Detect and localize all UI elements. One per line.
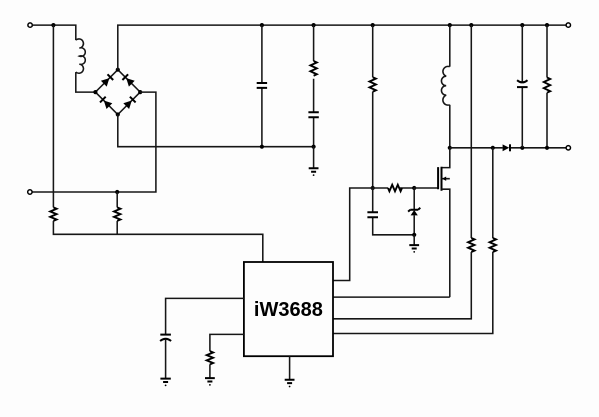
diode BR1-D2 (R to T) [126, 78, 135, 87]
wire B output to resistor [492, 148, 494, 238]
wire IC bottom ground [289, 356, 291, 380]
node bridge bottom [116, 112, 120, 116]
terminal T1 top-left [28, 23, 32, 27]
wire R6 to IC [333, 252, 471, 319]
svg-text:iW3688: iW3688 [254, 299, 323, 321]
bridge BR1 diamond [93, 68, 142, 117]
ground G4 [205, 378, 215, 386]
wire output line [450, 147, 566, 149]
node bridge top [116, 68, 120, 72]
wire Q1 source to IC [333, 296, 450, 298]
terminal T4 output [566, 146, 570, 150]
node rail startup R [371, 23, 375, 27]
wire bridge bottom to return rail [118, 115, 314, 147]
diode BR1-D3 (B to L) [104, 101, 113, 110]
wire left sense drop [52, 25, 54, 207]
ground G3 [160, 379, 170, 387]
node bridge right [138, 90, 142, 94]
node output diode cathode / C4 [520, 146, 524, 150]
wire IC left pin VCC [166, 298, 244, 334]
capacitor C1 bulk [257, 25, 267, 147]
resistor R9 [207, 351, 213, 364]
capacitor C2 snubber [308, 79, 318, 147]
capacitor C4 output [517, 25, 528, 148]
wire T1 to inductor [32, 25, 75, 40]
inductor L2 [441, 66, 449, 105]
node C1 bottom [260, 145, 264, 149]
wire zener node to gate [414, 187, 438, 189]
capacitor C3 gate [367, 188, 414, 235]
capacitor C5 vcc [160, 335, 171, 379]
node rail snubber [312, 23, 316, 27]
diode BR1-D1 (L to T) [101, 78, 110, 87]
resistor R8 load [546, 25, 548, 77]
wire R9 to ground [209, 364, 211, 378]
node switch SW [448, 146, 452, 150]
resistor R7 [490, 238, 496, 252]
resistor R1 line sense left [50, 207, 56, 221]
resistor R5 gate series [373, 187, 415, 189]
wire R7 to IC [333, 252, 493, 334]
wire R1 bottom to sense rail [53, 221, 262, 262]
wire gate node to IC drive riser [333, 188, 373, 281]
wire snubber to ground [313, 147, 315, 169]
node gate RC junction [371, 186, 375, 190]
node AC2 resistor tap [115, 190, 119, 194]
terminal T2 bottom-left [28, 190, 32, 194]
wire rail to L2 [449, 25, 451, 67]
resistor R6 [468, 238, 474, 252]
inductor L1 [76, 39, 85, 73]
node zener bottom [412, 233, 416, 237]
wire zener bottom to ground [413, 235, 415, 245]
node snubber bottom [312, 145, 316, 149]
resistor R4 startup [372, 25, 374, 77]
ground G1 [309, 168, 319, 176]
wire IC left pin2 [210, 334, 244, 351]
wire AC2 tap down [116, 192, 118, 207]
node bridge left [93, 90, 97, 94]
wire L2 to drain node [449, 105, 451, 148]
transistor Q1 [438, 148, 450, 297]
ground G2 [409, 245, 419, 253]
node zener top [412, 186, 416, 190]
op-amp U1 iW3688 [244, 262, 333, 356]
wire R4 to gate node [372, 92, 374, 188]
node rail C1 [260, 23, 264, 27]
zener diode D1 [408, 188, 420, 235]
diode BR1-D4 (B to R) [123, 101, 132, 110]
wire R2 bottom to sense rail [116, 221, 118, 234]
node output R tap [491, 146, 495, 150]
node rail Rload [545, 23, 549, 27]
wire L1 bottom to bridge left [76, 72, 96, 92]
wire bridge top riser to rail [118, 25, 566, 70]
node top rail junction A [51, 23, 55, 27]
node R8 bottom [545, 146, 549, 150]
terminal T3 top-right [566, 23, 570, 27]
node rail wireA [469, 23, 473, 27]
diode D2 output [503, 144, 510, 151]
wire A rail to resistor [470, 25, 472, 238]
wire R8 to output line [546, 93, 548, 148]
resistor R3 snubber [313, 25, 315, 61]
resistor R2 line sense right [114, 207, 120, 221]
ground G5 [285, 380, 295, 388]
node rail C4 [520, 23, 524, 27]
wire bridge right to AC2 [32, 92, 156, 192]
node rail L2 [448, 23, 452, 27]
